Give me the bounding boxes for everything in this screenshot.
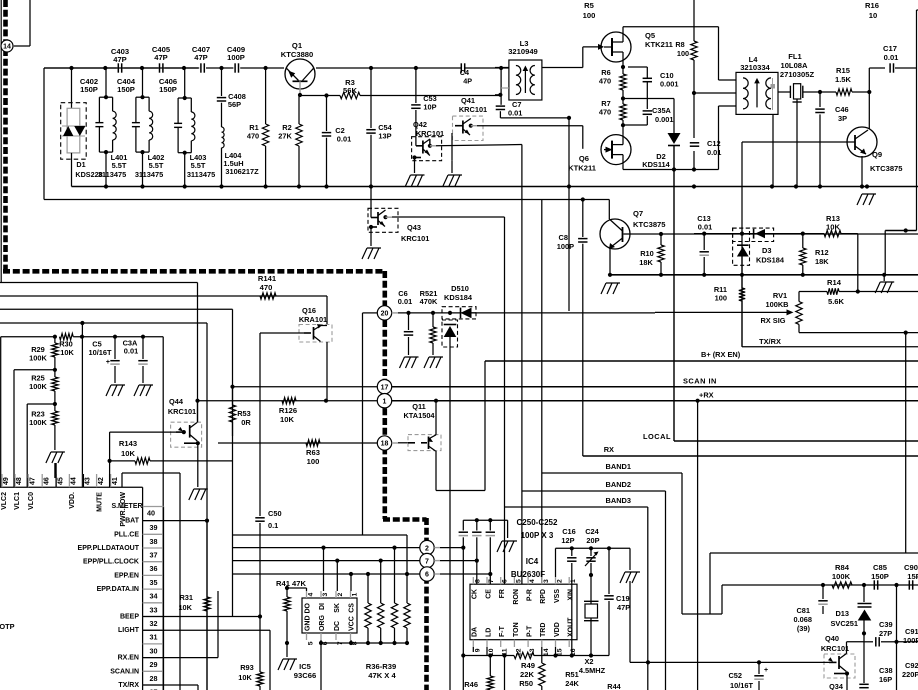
svg-text:TX/RX: TX/RX (118, 682, 139, 689)
svg-text:220P: 220P (902, 670, 918, 679)
svg-text:P-T: P-T (527, 625, 534, 637)
svg-text:Q44: Q44 (169, 397, 184, 406)
svg-text:VDD: VDD (554, 622, 561, 637)
svg-text:R14: R14 (827, 278, 842, 287)
svg-text:3113475: 3113475 (135, 170, 163, 179)
svg-text:LD: LD (485, 628, 492, 637)
svg-text:R143: R143 (119, 439, 137, 448)
svg-text:32: 32 (150, 619, 158, 628)
svg-text:56K: 56K (343, 86, 357, 95)
svg-text:10P: 10P (423, 103, 436, 112)
svg-text:R46: R46 (464, 680, 478, 689)
svg-text:10/16T: 10/16T (88, 348, 111, 357)
svg-text:470K: 470K (420, 297, 438, 306)
svg-text:BAND3: BAND3 (606, 496, 631, 505)
svg-text:2: 2 (337, 593, 344, 597)
svg-text:0.01: 0.01 (707, 148, 721, 157)
svg-text:100P: 100P (227, 53, 245, 62)
svg-text:C50: C50 (268, 509, 282, 518)
svg-text:ORG: ORG (319, 615, 326, 632)
svg-text:Q40: Q40 (825, 634, 839, 643)
svg-text:8: 8 (474, 579, 481, 583)
svg-text:C52: C52 (728, 671, 742, 680)
svg-text:48: 48 (16, 477, 23, 485)
svg-text:Q34: Q34 (829, 682, 844, 690)
svg-text:44: 44 (71, 477, 78, 485)
svg-text:2: 2 (425, 545, 429, 552)
svg-text:18: 18 (381, 441, 389, 448)
svg-text:GND: GND (305, 615, 312, 631)
svg-text:49: 49 (3, 477, 10, 485)
svg-text:CS: CS (349, 603, 356, 613)
svg-text:5.6K: 5.6K (828, 297, 845, 306)
svg-text:TX/RX: TX/RX (759, 337, 781, 346)
svg-text:Q16: Q16 (302, 306, 316, 315)
svg-text:Q11: Q11 (412, 402, 426, 411)
svg-text:VLC0: VLC0 (28, 492, 35, 510)
svg-text:KRA101: KRA101 (299, 315, 327, 324)
svg-text:KTC3875: KTC3875 (633, 220, 666, 229)
svg-text:22K: 22K (520, 670, 534, 679)
svg-text:5.5T: 5.5T (191, 161, 206, 170)
svg-text:F-T: F-T (499, 625, 506, 637)
svg-text:0R: 0R (241, 418, 251, 427)
svg-text:(39): (39) (797, 624, 811, 633)
svg-text:10: 10 (869, 11, 877, 20)
svg-text:0.1: 0.1 (268, 521, 278, 530)
svg-text:31: 31 (150, 633, 158, 642)
svg-text:LIGHT: LIGHT (118, 627, 140, 634)
svg-text:3113475: 3113475 (187, 170, 215, 179)
svg-text:Q7: Q7 (633, 209, 643, 218)
svg-text:D1: D1 (76, 160, 85, 169)
svg-text:FL1: FL1 (788, 52, 802, 61)
svg-text:10K: 10K (121, 449, 135, 458)
svg-text:VLC2: VLC2 (1, 492, 8, 510)
svg-text:45: 45 (57, 477, 64, 485)
svg-text:100P: 100P (557, 242, 574, 251)
svg-text:470: 470 (599, 77, 611, 86)
svg-text:47P: 47P (617, 603, 630, 612)
svg-text:R31: R31 (179, 593, 193, 602)
svg-text:IC4: IC4 (526, 557, 539, 566)
svg-text:BAT: BAT (125, 518, 140, 525)
svg-text:10L08A: 10L08A (780, 61, 808, 70)
svg-text:R36-R39: R36-R39 (366, 662, 396, 671)
svg-text:MUTE: MUTE (97, 492, 104, 512)
svg-text:Q1: Q1 (292, 41, 303, 50)
svg-text:RON: RON (513, 589, 520, 605)
svg-text:1: 1 (352, 593, 359, 597)
svg-text:6: 6 (425, 572, 429, 579)
svg-text:R126: R126 (279, 406, 297, 415)
svg-text:X2: X2 (584, 657, 593, 666)
svg-text:0.068: 0.068 (794, 615, 813, 624)
svg-text:0.01: 0.01 (508, 109, 522, 118)
svg-text:SCAN IN: SCAN IN (683, 377, 717, 386)
svg-text:5: 5 (515, 579, 522, 583)
svg-text:R5: R5 (584, 1, 594, 10)
svg-text:100: 100 (583, 11, 596, 20)
svg-text:D13: D13 (835, 609, 849, 618)
svg-text:18K: 18K (815, 257, 829, 266)
svg-text:VSS: VSS (554, 589, 561, 603)
svg-text:10K: 10K (178, 603, 192, 612)
svg-text:0.001: 0.001 (655, 115, 674, 124)
svg-text:C250-C252: C250-C252 (517, 518, 558, 527)
svg-text:14: 14 (3, 44, 11, 51)
svg-text:10K: 10K (238, 673, 252, 682)
svg-text:R84: R84 (835, 563, 850, 572)
svg-text:C24: C24 (585, 527, 599, 536)
svg-text:C91: C91 (905, 627, 918, 636)
svg-text:DC: DC (334, 621, 341, 631)
svg-text:470: 470 (599, 108, 611, 117)
svg-text:100K: 100K (29, 418, 47, 427)
svg-text:10K: 10K (826, 223, 840, 232)
svg-text:0.001: 0.001 (660, 80, 679, 89)
svg-text:C38: C38 (879, 666, 893, 675)
svg-text:R93: R93 (240, 663, 254, 672)
svg-text:100K: 100K (29, 354, 47, 363)
svg-text:150P: 150P (80, 85, 98, 94)
svg-text:27K: 27K (278, 132, 292, 141)
svg-text:4: 4 (308, 593, 315, 597)
svg-text:VDD.: VDD. (69, 492, 76, 509)
svg-text:D510: D510 (451, 284, 469, 293)
svg-text:30: 30 (150, 646, 158, 655)
svg-text:47K X 4: 47K X 4 (368, 671, 396, 680)
svg-text:12P: 12P (561, 536, 574, 545)
svg-text:R8: R8 (675, 40, 684, 49)
svg-text:0.01: 0.01 (884, 53, 900, 62)
svg-text:4: 4 (529, 579, 536, 583)
svg-text:47P: 47P (113, 55, 127, 64)
svg-text:VLC1: VLC1 (14, 492, 21, 510)
svg-text:R44: R44 (607, 682, 621, 690)
svg-text:13P: 13P (378, 132, 391, 141)
svg-text:DO: DO (305, 602, 312, 613)
svg-text:470: 470 (247, 132, 259, 141)
svg-text:TON: TON (513, 622, 520, 637)
svg-text:R49: R49 (521, 661, 535, 670)
svg-text:18K: 18K (639, 258, 653, 267)
svg-text:S.METER: S.METER (111, 503, 142, 510)
svg-text:28: 28 (150, 674, 158, 683)
svg-text:R51: R51 (565, 670, 579, 679)
svg-text:KTC3875: KTC3875 (870, 164, 903, 173)
svg-text:C90: C90 (904, 563, 918, 572)
svg-text:0.01: 0.01 (124, 347, 138, 356)
svg-text:Q42: Q42 (413, 120, 427, 129)
svg-text:100: 100 (715, 294, 727, 303)
svg-text:C17: C17 (883, 44, 897, 53)
svg-text:EPP.DATA.IN: EPP.DATA.IN (97, 586, 139, 593)
svg-text:47P: 47P (194, 53, 208, 62)
svg-text:SCAN.IN: SCAN.IN (110, 668, 139, 675)
svg-text:3210949: 3210949 (508, 47, 538, 56)
svg-text:RX.EN: RX.EN (118, 655, 139, 662)
svg-text:KRC101: KRC101 (401, 234, 429, 243)
svg-text:FR: FR (499, 589, 506, 598)
svg-text:9: 9 (474, 648, 481, 652)
svg-text:56P: 56P (228, 100, 241, 109)
svg-text:C16: C16 (562, 527, 576, 536)
svg-text:R63: R63 (306, 448, 320, 457)
svg-text:TRD: TRD (540, 623, 547, 637)
svg-text:100P: 100P (903, 636, 918, 645)
svg-text:C8: C8 (559, 233, 568, 242)
svg-text:10K: 10K (280, 415, 294, 424)
svg-text:150P: 150P (871, 572, 889, 581)
svg-text:KTA1504: KTA1504 (403, 411, 435, 420)
svg-text:C46: C46 (835, 105, 849, 114)
svg-text:3P: 3P (838, 114, 847, 123)
svg-text:OTP: OTP (0, 622, 15, 631)
svg-text:XOUT: XOUT (568, 617, 575, 637)
svg-text:KDS184: KDS184 (444, 293, 473, 302)
svg-text:100K: 100K (29, 382, 47, 391)
svg-text:SK: SK (334, 603, 341, 613)
svg-text:20: 20 (381, 311, 389, 318)
svg-text:3106217Z: 3106217Z (225, 167, 259, 176)
svg-text:1.5K: 1.5K (835, 75, 852, 84)
svg-text:5.5T: 5.5T (149, 161, 164, 170)
svg-text:D3: D3 (762, 246, 771, 255)
svg-text:0.01: 0.01 (337, 135, 351, 144)
svg-text:R53: R53 (237, 409, 251, 418)
svg-text:100: 100 (677, 49, 689, 58)
svg-text:B+ (RX EN): B+ (RX EN) (701, 350, 741, 359)
svg-text:1: 1 (383, 398, 387, 405)
svg-text:P-R: P-R (527, 589, 534, 601)
svg-text:27P: 27P (879, 629, 892, 638)
svg-text:R16: R16 (865, 1, 879, 10)
svg-text:EPP.EN: EPP.EN (114, 572, 139, 579)
svg-text:KRC101: KRC101 (459, 105, 487, 114)
svg-text:470: 470 (260, 283, 273, 292)
svg-text:KTC3880: KTC3880 (281, 50, 314, 59)
svg-text:17: 17 (381, 384, 389, 391)
svg-text:6: 6 (502, 579, 509, 583)
svg-text:BAND2: BAND2 (606, 480, 631, 489)
svg-text:SVC251: SVC251 (830, 619, 858, 628)
svg-text:10K: 10K (60, 348, 74, 357)
svg-text:3210334: 3210334 (740, 63, 770, 72)
svg-text:35: 35 (150, 578, 158, 587)
svg-text:BAND1: BAND1 (606, 462, 631, 471)
svg-text:46: 46 (43, 477, 50, 485)
svg-text:3: 3 (322, 593, 329, 597)
svg-text:VCC: VCC (349, 616, 356, 631)
svg-text:DI: DI (319, 603, 326, 610)
svg-text:CE: CE (485, 589, 492, 599)
svg-text:0.01: 0.01 (398, 297, 412, 306)
svg-text:RX: RX (604, 445, 614, 454)
svg-text:150P: 150P (117, 85, 135, 94)
svg-text:KRC101: KRC101 (168, 407, 196, 416)
svg-text:DA: DA (472, 627, 479, 637)
svg-text:KTK211: KTK211 (645, 40, 674, 49)
svg-text:C92: C92 (905, 661, 918, 670)
svg-text:R50: R50 (519, 679, 533, 688)
svg-text:2710305Z: 2710305Z (780, 70, 815, 79)
svg-text:KDS114: KDS114 (642, 160, 670, 169)
svg-text:4.5MHZ: 4.5MHZ (579, 666, 606, 675)
svg-text:34: 34 (150, 592, 158, 601)
svg-text:100: 100 (307, 457, 320, 466)
svg-text:+RX: +RX (699, 391, 714, 400)
svg-text:R41 47K: R41 47K (276, 579, 306, 588)
svg-text:40: 40 (147, 509, 155, 518)
svg-text:IC5: IC5 (299, 662, 312, 671)
svg-text:EPP.PLLDATAOUT: EPP.PLLDATAOUT (78, 545, 140, 552)
svg-text:38: 38 (150, 537, 158, 546)
svg-text:KTK211: KTK211 (568, 164, 597, 173)
svg-text:XIN: XIN (568, 589, 575, 601)
svg-text:15P: 15P (907, 572, 918, 581)
svg-text:C81: C81 (796, 606, 810, 615)
svg-text:R10: R10 (640, 249, 654, 258)
svg-text:C12: C12 (707, 139, 721, 148)
svg-text:42: 42 (98, 477, 105, 485)
svg-text:43: 43 (85, 477, 92, 485)
svg-text:100P X 3: 100P X 3 (521, 531, 554, 540)
svg-text:20P: 20P (586, 536, 599, 545)
svg-text:C35A: C35A (652, 106, 672, 115)
svg-text:7: 7 (425, 558, 429, 565)
svg-text:+: + (764, 667, 768, 674)
svg-text:7: 7 (488, 579, 495, 583)
svg-text:Q41: Q41 (461, 96, 475, 105)
svg-text:100KB: 100KB (765, 300, 788, 309)
svg-text:R12: R12 (815, 248, 829, 257)
svg-text:C19: C19 (616, 594, 630, 603)
svg-text:RV1: RV1 (773, 291, 787, 300)
svg-text:5.5T: 5.5T (112, 161, 127, 170)
svg-text:RPD: RPD (540, 589, 547, 604)
svg-text:4P: 4P (463, 77, 472, 86)
svg-text:Q9: Q9 (872, 150, 882, 159)
svg-text:0.01: 0.01 (698, 223, 712, 232)
svg-text:5: 5 (308, 641, 315, 645)
svg-text:Q43: Q43 (407, 223, 421, 232)
svg-text:47P: 47P (154, 53, 168, 62)
svg-text:47: 47 (29, 477, 36, 485)
svg-text:29: 29 (150, 660, 158, 669)
svg-text:CK: CK (472, 589, 479, 599)
svg-text:41: 41 (112, 477, 119, 485)
svg-text:2: 2 (557, 579, 564, 583)
svg-text:16P: 16P (879, 675, 892, 684)
svg-text:150P: 150P (159, 85, 177, 94)
svg-text:+: + (106, 359, 110, 366)
svg-text:R15: R15 (836, 66, 851, 75)
svg-text:Q5: Q5 (645, 31, 656, 40)
svg-text:BEEP: BEEP (120, 614, 139, 621)
svg-text:EPP/PLL.CLOCK: EPP/PLL.CLOCK (83, 559, 139, 566)
svg-text:24K: 24K (565, 679, 579, 688)
svg-text:LOCAL: LOCAL (643, 432, 671, 441)
svg-text:36: 36 (150, 564, 158, 573)
svg-text:R141: R141 (258, 274, 277, 283)
svg-text:PLL.CE: PLL.CE (114, 531, 139, 538)
svg-text:10/16T: 10/16T (730, 681, 753, 690)
svg-text:33: 33 (150, 605, 158, 614)
svg-text:100K: 100K (832, 572, 851, 581)
svg-text:C39: C39 (879, 620, 893, 629)
svg-text:39: 39 (150, 523, 158, 532)
svg-text:37: 37 (150, 551, 158, 560)
svg-text:Q6: Q6 (579, 154, 589, 163)
svg-text:C85: C85 (873, 563, 888, 572)
svg-text:93C66: 93C66 (294, 671, 316, 680)
svg-text:RX SIG: RX SIG (760, 316, 785, 325)
svg-text:KRC101: KRC101 (821, 644, 849, 653)
svg-text:KDS184: KDS184 (756, 256, 785, 265)
svg-text:3: 3 (543, 579, 550, 583)
svg-text:3113475: 3113475 (98, 170, 126, 179)
